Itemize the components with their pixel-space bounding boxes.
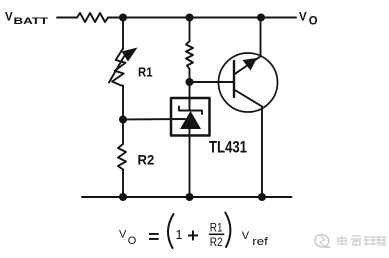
wire REF junction to TL431	[123, 118, 185, 121]
svg-text:V: V	[242, 230, 250, 242]
R1 wiper arrow	[109, 48, 138, 83]
svg-text:ref: ref	[252, 236, 269, 248]
node top rail / Q1 emitter	[257, 14, 265, 22]
svg-text:V: V	[5, 12, 13, 24]
wire R2 to bottom rail	[122, 170, 124, 198]
diode TL431 anode triangle	[180, 111, 201, 129]
svg-text:R1: R1	[210, 221, 223, 235]
resistor R1 (variable)	[112, 49, 125, 87]
wire top rail down to R1	[122, 18, 124, 50]
svg-text:BATT: BATT	[14, 16, 49, 26]
wire top rail to VO	[108, 17, 296, 19]
formula right parenthesis	[225, 213, 230, 248]
label VBATT	[5, 12, 48, 27]
formula VO = (1 + R1/R2) Vref	[119, 221, 269, 249]
wire VBATT to series resistor	[57, 17, 77, 19]
wire Q1 bottom lead to rail	[261, 107, 263, 198]
wire anode to bottom rail	[189, 129, 191, 197]
wire top rail down to bias resistor	[189, 18, 191, 42]
node bottom rail / TL431 anode	[186, 193, 194, 201]
wire bottom rail	[82, 196, 292, 198]
node top rail / bias resistor	[186, 14, 194, 22]
diode TL431 cathode bar	[179, 107, 202, 115]
node bottom rail / Q1	[258, 193, 266, 201]
wire R1 to R2	[122, 86, 124, 145]
transistor Q1 collector diagonal	[234, 90, 262, 107]
node R1/R2 junction	[119, 116, 127, 124]
transistor Q1 emitter diagonal	[234, 56, 261, 74]
svg-text:R1: R1	[138, 64, 153, 79]
node bottom rail / R2	[119, 193, 127, 201]
resistor bias (cathode pull-up)	[186, 41, 193, 69]
node cathode / base	[186, 78, 194, 86]
transistor Q1 base bar	[233, 61, 235, 97]
label VO	[299, 12, 318, 28]
formula left parenthesis	[168, 214, 174, 248]
svg-text:O: O	[309, 13, 318, 27]
watermark logo	[315, 235, 330, 247]
resistor R2	[118, 144, 126, 170]
svg-text:O: O	[128, 235, 137, 247]
svg-text:1: 1	[176, 228, 183, 242]
op-amp U1 TL431 box	[171, 98, 210, 136]
wire cathode inside box	[189, 98, 191, 111]
wire Q1 top lead to rail	[260, 18, 262, 57]
svg-text:V: V	[119, 229, 127, 241]
wire base of Q1	[190, 81, 235, 83]
svg-text:R2: R2	[210, 235, 223, 249]
node top rail / R1	[119, 14, 127, 22]
svg-text:TL431: TL431	[209, 139, 247, 157]
resistor series input (top rail)	[77, 13, 108, 22]
wire bias resistor to cathode node	[189, 69, 191, 98]
transistor Q1 emitter arrow	[243, 58, 258, 71]
svg-text:R2: R2	[138, 152, 155, 168]
watermark text 电源联盟	[338, 236, 386, 246]
transistor Q1 body	[219, 53, 278, 112]
svg-text:V: V	[299, 12, 307, 24]
